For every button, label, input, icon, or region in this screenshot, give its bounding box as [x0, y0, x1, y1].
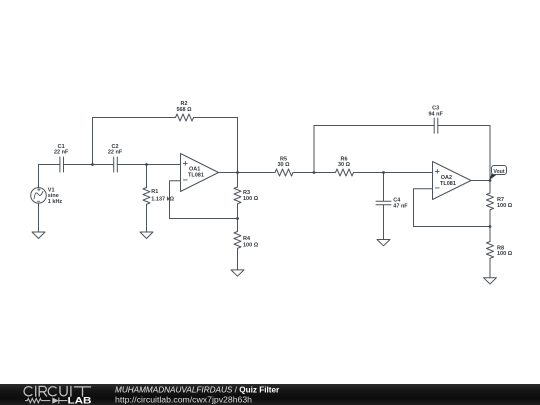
svg-text:1 kHz: 1 kHz: [48, 199, 63, 205]
svg-text:47 nF: 47 nF: [393, 203, 408, 209]
svg-text:Vout: Vout: [493, 169, 504, 175]
svg-text:R3: R3: [243, 190, 250, 196]
svg-text:http://circuitlab.com/cwx7jpv2: http://circuitlab.com/cwx7jpv28h63h: [115, 396, 252, 405]
svg-text:TL081: TL081: [188, 172, 204, 178]
svg-text:22 nF: 22 nF: [54, 150, 69, 156]
svg-text:94 nF: 94 nF: [429, 111, 444, 117]
svg-text:22 nF: 22 nF: [108, 150, 123, 156]
svg-text:30 Ω: 30 Ω: [338, 162, 351, 168]
svg-text:100 Ω: 100 Ω: [243, 196, 259, 202]
svg-text:TL081: TL081: [440, 181, 456, 187]
svg-text:1.137 kΩ: 1.137 kΩ: [151, 196, 174, 202]
svg-text:100 Ω: 100 Ω: [497, 251, 513, 257]
svg-text:30 Ω: 30 Ω: [277, 162, 290, 168]
svg-text:LAB: LAB: [68, 396, 92, 405]
svg-text:R1: R1: [151, 189, 158, 195]
svg-text:100 Ω: 100 Ω: [497, 203, 513, 209]
svg-text:MUHAMMADNAUVALFIRDAUS / Quiz F: MUHAMMADNAUVALFIRDAUS / Quiz Filter: [115, 385, 280, 394]
svg-text:100 Ω: 100 Ω: [243, 243, 259, 249]
svg-text:568 Ω: 568 Ω: [176, 107, 192, 113]
svg-text:R4: R4: [243, 236, 251, 242]
